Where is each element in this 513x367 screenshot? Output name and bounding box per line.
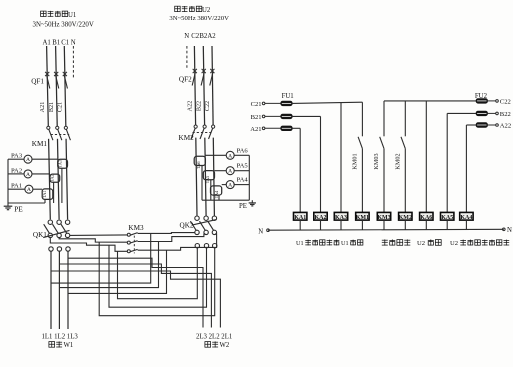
svg-text:KM02: KM02 [394,153,401,169]
svg-text:TA2: TA2 [50,174,55,182]
svg-text:U1: U1 [68,12,76,19]
svg-text:A: A [26,172,30,178]
svg-text:A1: A1 [43,39,51,46]
svg-text:PE: PE [239,203,247,210]
svg-text:A21: A21 [250,126,261,133]
svg-text:A: A [228,169,232,175]
svg-text:B22: B22 [195,101,202,111]
svg-text:3N~50Hz 380V/220V: 3N~50Hz 380V/220V [169,15,229,22]
svg-text:KM3: KM3 [128,224,144,232]
svg-text:PA2: PA2 [11,167,22,174]
svg-text:FU1: FU1 [282,93,294,100]
svg-text:U2: U2 [450,240,458,247]
svg-text:C22: C22 [204,101,211,111]
svg-text:C21: C21 [57,102,64,112]
svg-text:TA6: TA6 [196,161,201,169]
svg-text:TA5: TA5 [205,176,210,184]
svg-text:N: N [71,39,76,46]
svg-text:2L3 2L2 2L1: 2L3 2L2 2L1 [196,334,232,341]
svg-text:C21: C21 [251,101,262,108]
svg-text:TA1: TA1 [42,190,47,198]
svg-text:U2: U2 [202,7,211,14]
svg-text:KM1: KM1 [32,140,48,148]
svg-text:B21: B21 [48,102,55,112]
svg-text:A22: A22 [500,122,511,129]
svg-text:U1: U1 [341,240,349,247]
svg-text:A: A [26,157,30,163]
svg-text:W2: W2 [220,342,230,349]
svg-text:KM03: KM03 [373,153,380,169]
svg-text:TA3: TA3 [57,160,62,168]
svg-text:1L1 1L2 1L3: 1L1 1L2 1L3 [42,334,79,341]
svg-text:PA4: PA4 [237,177,249,184]
svg-text:A: A [228,153,232,159]
svg-text:KA6: KA6 [420,215,432,221]
svg-text:3N~50Hz 380V/220V: 3N~50Hz 380V/220V [33,21,94,28]
svg-text:A: A [27,187,31,193]
svg-text:KA1: KA1 [294,215,306,221]
svg-text:QF1: QF1 [31,77,44,85]
svg-text:PA5: PA5 [237,163,249,170]
svg-text:PA6: PA6 [237,147,249,154]
svg-text:N: N [184,33,189,40]
svg-text:PE: PE [14,205,23,214]
svg-text:KM2: KM2 [399,215,412,221]
svg-text:C22: C22 [500,98,511,105]
svg-text:QK1: QK1 [33,231,47,239]
svg-text:C1: C1 [61,39,69,46]
svg-text:KM01: KM01 [351,153,358,169]
svg-text:KA2: KA2 [315,215,327,221]
svg-text:N: N [258,229,263,236]
svg-text:KM3: KM3 [377,215,390,221]
svg-text:B1: B1 [52,39,60,46]
svg-text:B21: B21 [251,114,262,121]
svg-text:A: A [228,183,232,189]
svg-text:N: N [507,227,512,234]
svg-text:A21: A21 [39,102,46,113]
svg-text:U1: U1 [296,240,304,247]
svg-text:B22: B22 [500,111,511,118]
svg-text:KM2: KM2 [179,134,195,142]
svg-text:KA4: KA4 [460,215,472,221]
svg-text:KA5: KA5 [441,215,453,221]
svg-text:W1: W1 [64,342,74,349]
svg-text:QF2: QF2 [179,75,192,83]
svg-text:A22: A22 [186,101,193,112]
svg-text:KA3: KA3 [335,215,347,221]
svg-text:PA1: PA1 [11,183,22,190]
svg-text:KM1: KM1 [356,215,369,221]
svg-text:PA3: PA3 [11,153,23,160]
svg-text:U2: U2 [417,240,425,247]
svg-text:QK2: QK2 [180,221,194,229]
svg-text:A2: A2 [207,33,216,40]
